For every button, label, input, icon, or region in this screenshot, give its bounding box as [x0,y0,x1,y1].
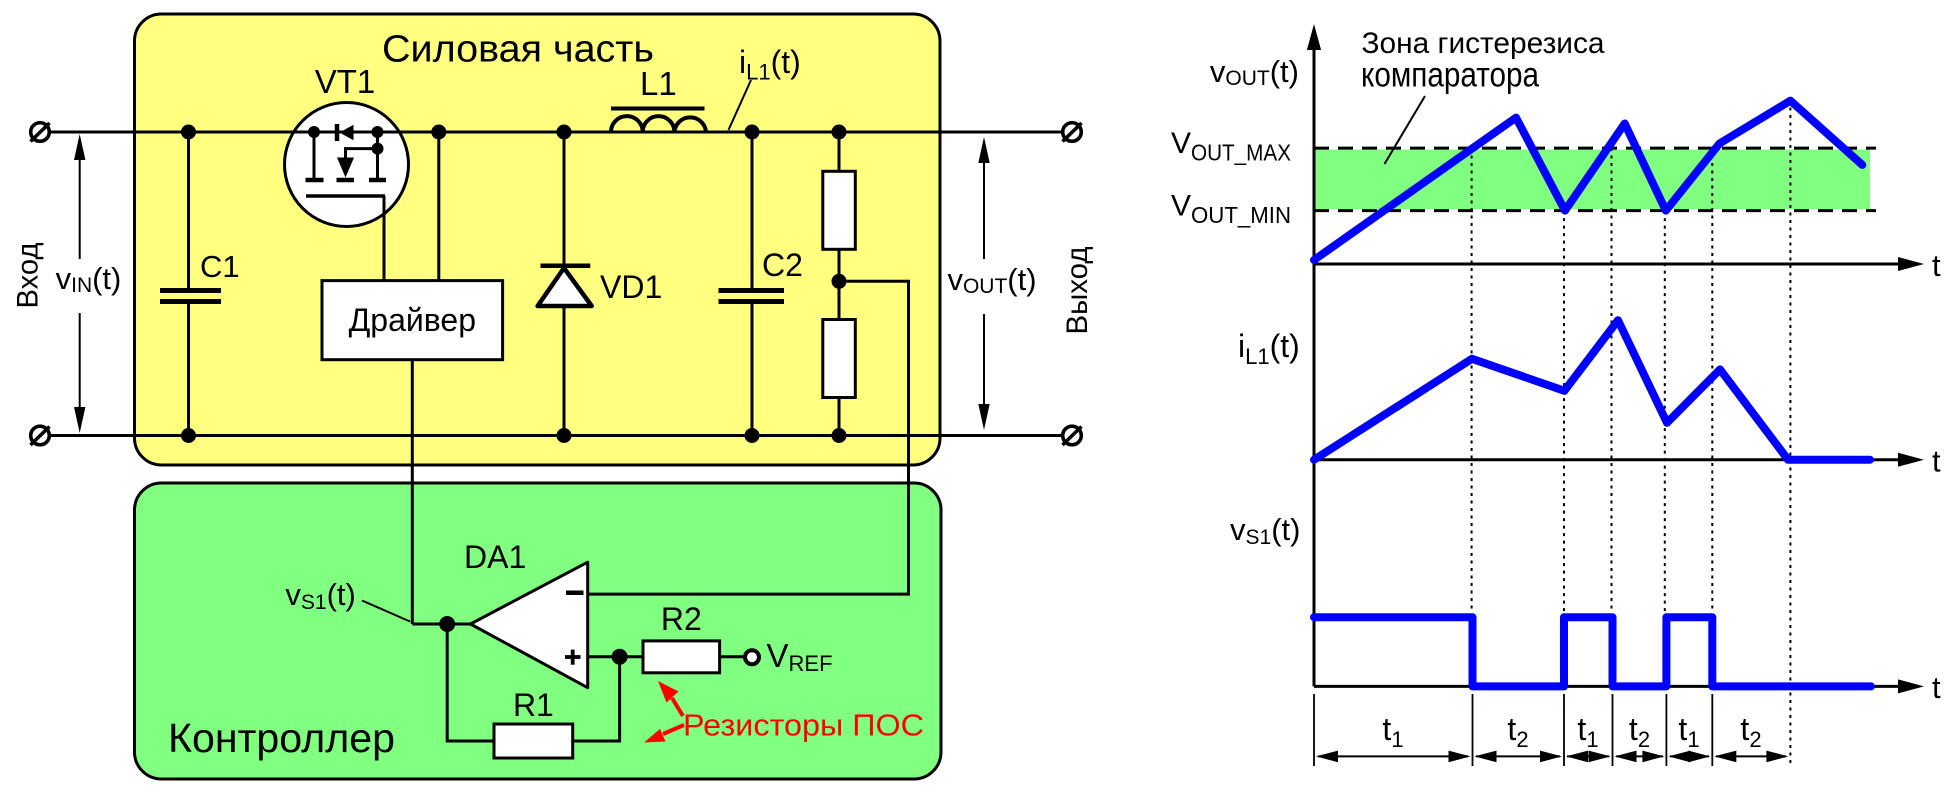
svg-text:Силовая часть: Силовая часть [382,29,654,71]
svg-text:t: t [1932,670,1941,705]
svg-text:Выход: Выход [1061,247,1094,335]
svg-text:C1: C1 [200,249,240,284]
svg-text:VT1: VT1 [315,63,376,100]
svg-text:t2: t2 [1740,711,1761,752]
svg-text:VD1: VD1 [600,269,662,305]
svg-text:t2: t2 [1629,711,1650,752]
svg-text:DA1: DA1 [464,539,526,575]
svg-text:vIN(t): vIN(t) [56,261,122,297]
svg-text:t: t [1932,248,1941,283]
svg-text:Контроллер: Контроллер [168,715,395,761]
svg-text:vOUT(t): vOUT(t) [1210,54,1299,90]
svg-text:t: t [1932,444,1941,479]
svg-text:vS1(t): vS1(t) [1230,512,1300,549]
svg-text:R1: R1 [513,687,554,723]
svg-text:Вход: Вход [12,243,45,309]
svg-text:vOUT(t): vOUT(t) [947,262,1036,298]
svg-text:t1: t1 [1678,711,1699,752]
svg-text:t1: t1 [1382,711,1403,752]
svg-text:Драйвер: Драйвер [349,302,476,338]
svg-text:L1: L1 [640,65,677,102]
svg-text:компаратора: компаратора [1361,56,1539,95]
svg-text:t2: t2 [1507,711,1528,752]
svg-text:R2: R2 [661,601,702,637]
svg-text:t1: t1 [1577,711,1598,752]
svg-text:C2: C2 [762,247,803,283]
svg-text:VOUT_MIN: VOUT_MIN [1171,190,1291,228]
svg-text:Резисторы ПОС: Резисторы ПОС [683,708,924,743]
svg-text:VOUT_MAX: VOUT_MAX [1171,127,1291,165]
svg-text:iL1(t): iL1(t) [1238,328,1300,369]
